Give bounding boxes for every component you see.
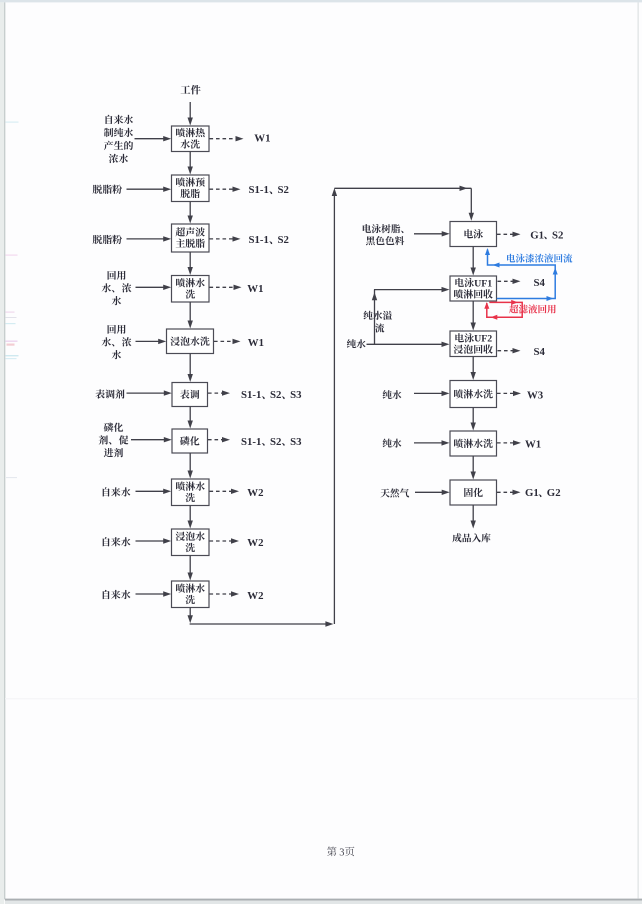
output dashed arrow W1 row1 <box>210 136 244 141</box>
input arrow 回用水浓水 (浸泡水洗) <box>136 339 167 344</box>
arrow blue up into 电泳 <box>485 248 490 255</box>
input arrow 表调剂 <box>127 390 172 395</box>
svg-text:UF2: UF2 <box>474 334 492 345</box>
output dashed arrow S1-1S2S3 row6 <box>208 390 230 395</box>
process box B2 喷淋预脱脂 <box>172 175 210 202</box>
output dashed arrow W1 row4 <box>210 285 242 290</box>
page right edge line <box>637 2 639 898</box>
wire down into 电泳 <box>469 188 474 221</box>
wire bottom rail to riser <box>190 621 334 626</box>
process box B1 喷淋热水洗 <box>172 126 210 152</box>
page bottom edge band <box>5 901 642 905</box>
svg-text:G1: G1 <box>525 487 539 499</box>
output dashed arrow W3 <box>497 391 521 396</box>
input arrow 纯水 W3 <box>414 391 450 396</box>
svg-text:W2: W2 <box>247 487 263 499</box>
page top edge band <box>0 0 642 2</box>
output dashed arrow S1-1S2 row2 <box>210 187 241 192</box>
svg-text:W3: W3 <box>527 390 544 402</box>
left margin scan artifact streaks <box>6 122 19 479</box>
output label S1-1、S2、S3 <box>241 436 302 448</box>
output label W2 <box>247 537 263 549</box>
output dashed arrow S4 UF1 <box>498 279 521 284</box>
input label 自来水 (喷淋水洗2) <box>103 487 131 496</box>
output dashed arrow W2 row9 <box>210 538 240 543</box>
svg-text:S2: S2 <box>270 436 281 448</box>
faint horizontal scan line <box>5 698 638 699</box>
svg-text:W1: W1 <box>254 133 270 145</box>
svg-text:S4: S4 <box>534 277 546 289</box>
output label W3 <box>527 390 544 402</box>
output dashed arrow G1G2 固化 <box>497 490 521 495</box>
wire B5 浸泡水洗 to next box <box>188 354 193 383</box>
wire riser up right side <box>332 188 337 624</box>
wire B2 喷淋预脱脂 to next box <box>188 202 193 224</box>
svg-text:W1: W1 <box>248 337 264 349</box>
input label 纯水 (喷淋水洗 W3) <box>383 390 402 399</box>
output dashed arrow W1 row5 <box>214 339 241 344</box>
svg-text:S1-1: S1-1 <box>249 234 269 246</box>
svg-text:3: 3 <box>339 847 344 858</box>
input arrow 电泳树脂 <box>414 231 450 236</box>
wire B3 超声波主脱脂 to next box <box>188 252 193 275</box>
output label W1 <box>247 283 263 295</box>
svg-text:W1: W1 <box>525 439 541 451</box>
input label 纯水 (UF2) <box>347 339 366 348</box>
output label W1 <box>254 133 270 145</box>
svg-text:S2: S2 <box>552 229 563 241</box>
svg-text:G2: G2 <box>547 487 561 499</box>
label 纯水溢流 <box>364 311 393 333</box>
output label W1 <box>525 439 541 451</box>
wire B4 喷淋水洗 to next box <box>188 302 193 329</box>
page left border line <box>4 2 5 899</box>
output dashed arrow G1S2 电泳 <box>497 232 521 237</box>
process box B7 磷化 <box>172 429 208 453</box>
input label 回用水浓水 (浸泡水洗) <box>102 325 132 360</box>
node 工件 label <box>181 85 201 95</box>
arrow red left <box>491 315 498 320</box>
svg-text:S2: S2 <box>278 184 289 196</box>
wire blue 电泳漆浓液回流 path <box>488 250 556 299</box>
wire B10 down to bottom rail <box>188 608 193 624</box>
input arrow 脱脂粉 (喷淋预脱脂) <box>127 187 172 192</box>
input label 自来水 (喷淋水洗3) <box>103 590 131 599</box>
svg-text:S1-1: S1-1 <box>241 389 261 401</box>
input label 脱脂粉 (喷淋预脱脂) <box>93 185 122 194</box>
output dashed arrow W2 row8 <box>210 489 240 494</box>
page bottom border line <box>5 899 642 901</box>
input arrow 天然气 <box>415 490 450 495</box>
input label 天然气 <box>380 488 409 497</box>
wire 纯水溢流 branch up <box>372 290 377 345</box>
process box B3 超声波主脱脂 <box>172 224 210 252</box>
process box B8 喷淋水洗 <box>172 479 210 506</box>
arrow blue up mid <box>553 268 558 275</box>
output dashed arrow S4 UF2 <box>498 348 521 353</box>
svg-text:S4: S4 <box>534 346 546 358</box>
process box B4 喷淋水洗 <box>172 276 210 303</box>
arrow red right <box>511 300 518 305</box>
output label G1、S2 <box>530 229 563 241</box>
arrow blue right <box>547 296 554 301</box>
process box B5 浸泡水洗 <box>167 329 214 354</box>
wire R3 电泳UF2浸泡回收 to next box <box>471 357 476 381</box>
input arrow 回用水浓水 (喷淋水洗) <box>136 285 172 290</box>
output label W1 <box>248 337 264 349</box>
svg-text:W1: W1 <box>247 283 263 295</box>
process box R3 电泳UF2浸泡回收 <box>450 331 497 357</box>
process box R2 电泳UF1喷淋回收 <box>450 276 497 301</box>
output dashed arrow S1-1S2 row3 <box>210 236 241 241</box>
input arrow 纯水 to UF2 <box>367 342 450 347</box>
svg-text:S1-1: S1-1 <box>249 184 269 196</box>
process box R6 固化 <box>450 480 497 505</box>
input arrow 自来水 (喷淋水洗3) <box>136 591 172 596</box>
svg-text:S3: S3 <box>290 436 302 448</box>
process box R5 喷淋水洗 <box>450 431 497 456</box>
wire 纯水溢流 into UF1 <box>374 287 450 292</box>
output label S1-1、S2 <box>249 184 289 196</box>
svg-text:S2: S2 <box>278 234 289 246</box>
process box R1 电泳 <box>450 222 497 247</box>
process box B6 表调 <box>172 383 208 407</box>
output dashed arrow W2 row10 <box>210 591 240 596</box>
input arrow 自来水 (浸泡水洗2) <box>136 538 172 543</box>
input arrow 自来水 (喷淋水洗2) <box>136 489 172 494</box>
wire R4 喷淋水洗 to next box <box>471 408 476 431</box>
wire B6 表调 to next box <box>188 407 193 429</box>
output label S1-1、S2、S3 <box>241 389 302 401</box>
arrow blue left <box>493 263 500 268</box>
node 成品入库 label <box>452 533 490 542</box>
arrow red up into UF1 <box>484 302 489 309</box>
svg-text:G1: G1 <box>530 229 544 241</box>
svg-text:W2: W2 <box>247 537 263 549</box>
label 电泳漆浓液回流 <box>507 254 572 263</box>
input label 表调剂 <box>95 389 124 398</box>
input label 纯水 (喷淋水洗 W1) <box>383 439 402 448</box>
svg-text:S2: S2 <box>270 389 281 401</box>
wire B8 喷淋水洗 to next box <box>188 506 193 529</box>
svg-text:S3: S3 <box>290 389 302 401</box>
wire top rail to 电泳 <box>334 186 471 191</box>
wire R1 电泳 to next box <box>471 247 476 276</box>
input label 电泳树脂、黑色色料 <box>363 224 405 245</box>
svg-text:UF1: UF1 <box>474 278 492 289</box>
svg-text:S1-1: S1-1 <box>241 436 261 448</box>
output label S4 <box>534 277 546 289</box>
output label S1-1、S2 <box>249 234 289 246</box>
wire 固化 to 成品入库 <box>471 505 476 529</box>
wire B9 浸泡水洗 to next box <box>188 556 193 581</box>
input label 脱脂粉 (超声波主脱脂) <box>93 235 122 244</box>
input arrow 自来水制纯水产生的浓水 <box>135 136 172 141</box>
page left edge band <box>0 2 4 904</box>
svg-text:W2: W2 <box>247 590 263 602</box>
output dashed arrow W1 right <box>497 440 521 445</box>
process box B10 喷淋水洗 <box>172 581 210 608</box>
input arrow 脱脂粉 (超声波主脱脂) <box>127 236 172 241</box>
wire B7 磷化 to next box <box>188 453 193 479</box>
output label W2 <box>247 487 263 499</box>
process box R4 喷淋水洗 <box>450 381 497 408</box>
label 超滤液回用 <box>509 304 556 313</box>
output dashed arrow S1-1S2S3 row7 <box>208 437 230 442</box>
output label S4 <box>534 346 546 358</box>
footer page number 第 3页 <box>327 847 354 859</box>
input label 自来水制纯水产生的浓水 <box>104 115 133 163</box>
input label 自来水 (浸泡水洗2) <box>103 537 131 546</box>
output label G1、G2 <box>525 487 561 499</box>
wire 工件 to 喷淋热水洗 <box>189 102 191 122</box>
input arrow 纯水 W1 <box>414 440 450 445</box>
output label W2 <box>247 590 263 602</box>
wire R2 电泳UF1喷淋回收 to next box <box>471 301 476 331</box>
wire R5 喷淋水洗 to next box <box>471 456 476 480</box>
wire red 超滤液回用 path <box>487 302 522 317</box>
input label 磷化剂促进剂 <box>99 423 129 458</box>
input label 回用水浓水 (喷淋水洗) <box>102 271 132 306</box>
wire B1 喷淋热水洗 to next box <box>188 152 193 175</box>
input arrow 磷化剂促进剂 <box>131 437 172 442</box>
process box B9 浸泡水洗 <box>172 529 210 556</box>
